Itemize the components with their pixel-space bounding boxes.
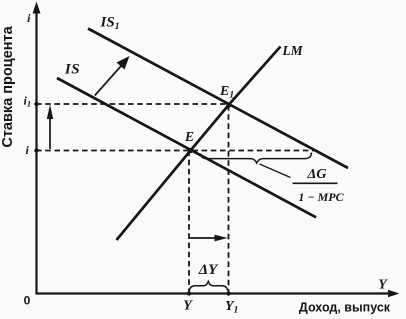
underbrace for dG gap xyxy=(201,153,312,164)
svg-text:IS: IS xyxy=(64,62,80,78)
tick dot i on y-axis xyxy=(34,148,38,152)
y-axis xyxy=(33,2,41,294)
IS1 curve xyxy=(88,29,348,169)
point E1 xyxy=(226,102,231,107)
svg-text:LM: LM xyxy=(281,43,303,58)
overbrace dY xyxy=(190,282,228,291)
IS curve xyxy=(57,78,316,217)
svg-text:0: 0 xyxy=(24,294,31,308)
svg-text:Доход, выпуск: Доход, выпуск xyxy=(299,301,391,315)
LM curve xyxy=(117,47,281,241)
tick dot i1 on y-axis xyxy=(34,102,38,106)
horizontal arrow Y to Y1 xyxy=(190,235,228,242)
dashed line Y1 vertical xyxy=(228,105,230,294)
svg-text:Y: Y xyxy=(183,299,193,314)
svg-text:Ставка процента: Ставка процента xyxy=(0,25,16,147)
diagonal arrow IS to IS1 xyxy=(95,56,130,96)
svg-text:E: E xyxy=(184,129,194,144)
fraction bar xyxy=(293,182,338,184)
x-axis xyxy=(36,290,400,297)
dashed line i level xyxy=(36,150,315,152)
svg-text:ΔG: ΔG xyxy=(307,167,327,182)
svg-text:ΔY: ΔY xyxy=(198,262,219,278)
dashed line Y vertical xyxy=(188,151,190,294)
leader line to fraction xyxy=(260,164,291,178)
svg-text:Y: Y xyxy=(378,278,388,293)
point E xyxy=(188,148,193,153)
tick dot Y on x-axis xyxy=(187,291,191,295)
vertical arrow i to i1 xyxy=(47,105,53,150)
svg-text:1 − MPC: 1 − MPC xyxy=(298,190,344,204)
dashed line i1 level xyxy=(36,103,229,105)
tick dot Y1 on x-axis xyxy=(226,291,230,295)
